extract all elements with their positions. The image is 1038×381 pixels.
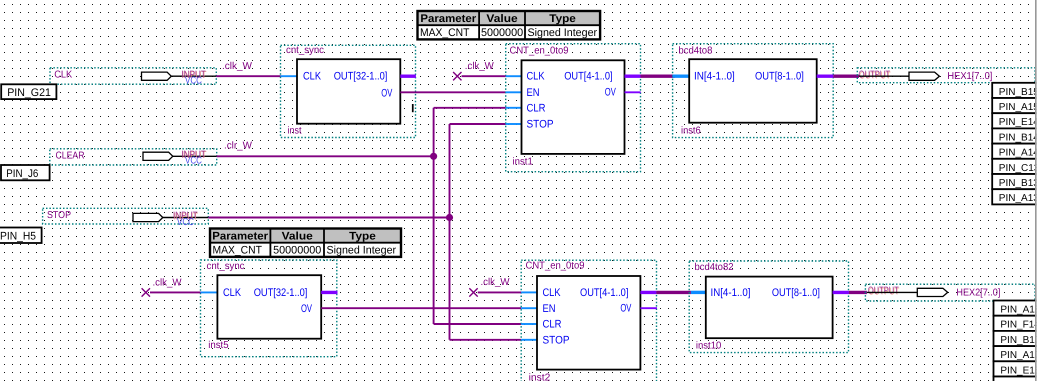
bus stub IN (inst6): [673, 74, 690, 77]
block cnt_sync inst: [297, 59, 400, 124]
svg-text:inst10: inst10: [696, 340, 722, 351]
wire clk_W to inst5 CLK: [150, 291, 201, 293]
svg-text:Type: Type: [549, 13, 576, 25]
svg-text:STOP: STOP: [47, 210, 71, 221]
block CNT_en_0to9 inst1: [522, 60, 625, 154]
output pin symbol HEX1: [909, 72, 939, 80]
output port HEX2 selection box: [865, 284, 1035, 301]
svg-text:CLEAR: CLEAR: [56, 150, 85, 161]
module CNT_en_0to9 inst1 selection box: [506, 44, 641, 172]
pin list HEX2: [994, 301, 1038, 381]
bus wire inst6 OUT to output HEX1: [833, 74, 859, 77]
svg-text:inst1: inst1: [513, 156, 534, 167]
svg-text:PIN_J6: PIN_J6: [6, 168, 38, 180]
svg-text:CLK: CLK: [303, 70, 322, 82]
module bcd4to82 inst10 selection box: [689, 261, 848, 353]
pin stub OV (inst1): [625, 91, 641, 93]
window border: [1037, 0, 1038, 381]
junction stop net: [446, 214, 453, 221]
svg-text:STOP: STOP: [543, 335, 570, 347]
svg-text:CNT_en_0to9: CNT_en_0to9: [526, 261, 585, 272]
svg-text:inst6: inst6: [681, 125, 701, 136]
bus stub OUT (inst1): [625, 74, 641, 77]
svg-text:.clk_W: .clk_W: [222, 61, 253, 72]
module bcd4to8 inst6 selection box: [673, 44, 834, 138]
svg-text:CLR: CLR: [527, 102, 546, 114]
module CNT_en_0to9 inst2 selection box: [521, 260, 656, 381]
svg-text:OV: OV: [381, 88, 392, 100]
bus wire inst2 OUT to inst10 IN: [656, 291, 691, 294]
svg-text:Signed Integer: Signed Integer: [528, 27, 598, 39]
bus wire inst10 OUT to output HEX2: [849, 291, 867, 294]
bus stub OUT (inst5): [321, 291, 337, 294]
svg-text:OUT[8-1..0]: OUT[8-1..0]: [772, 287, 820, 299]
wire clk_W to inst1 CLK: [462, 75, 506, 77]
pin stub STOP (inst2): [521, 339, 537, 341]
svg-text:CNT_en_0to9: CNT_en_0to9: [510, 45, 569, 56]
pin stub CLK (inst1): [506, 75, 522, 77]
svg-text:.clr_W: .clr_W: [224, 141, 253, 152]
svg-text:PIN_G21: PIN_G21: [7, 87, 51, 99]
wire OV to EN: [400, 91, 505, 93]
svg-text:PIN_A15: PIN_A15: [999, 102, 1038, 113]
block CNT_en_0to9 inst2: [537, 276, 640, 370]
svg-text:Parameter: Parameter: [420, 13, 477, 25]
input pin symbol STOP: [133, 213, 163, 221]
svg-text:CLK: CLK: [543, 287, 562, 299]
svg-text:inst2: inst2: [529, 373, 551, 381]
svg-text:CLK: CLK: [527, 71, 546, 83]
svg-text:PIN_B17: PIN_B17: [1000, 335, 1038, 346]
svg-text:.clk_W: .clk_W: [153, 278, 183, 289]
pin stub CLK (inst2): [521, 291, 537, 293]
svg-text:cnt_sync: cnt_sync: [286, 45, 324, 56]
svg-text:CLK: CLK: [223, 287, 242, 299]
parameter table MAX_CNT=5000000: [418, 11, 601, 25]
svg-text:OUT[4-1..0]: OUT[4-1..0]: [580, 287, 628, 299]
input port CLK selection box: [50, 68, 216, 84]
pin stub STOP (inst1): [506, 123, 522, 125]
svg-text:Type: Type: [349, 231, 376, 243]
svg-text:.clk_W: .clk_W: [465, 61, 495, 72]
bus stub OUT (inst2): [640, 291, 656, 294]
svg-text:PIN_C13: PIN_C13: [999, 163, 1038, 174]
pin stub CLR (inst2): [521, 323, 537, 325]
svg-text:PIN_A13: PIN_A13: [999, 193, 1038, 204]
svg-text:PIN_A17: PIN_A17: [1000, 350, 1038, 361]
svg-text:Value: Value: [486, 13, 517, 25]
input pin symbol CLK: [142, 72, 172, 80]
pin PIN_J6: [1, 165, 50, 180]
wire stop to inst2 STOP: [450, 339, 522, 341]
output port HEX1 selection box: [857, 68, 1035, 83]
off-page marker clk_W (inst1): [453, 72, 461, 80]
input pin symbol CLEAR: [143, 152, 173, 160]
pin line CLEAR: [173, 155, 217, 157]
pin line STOP: [163, 217, 209, 219]
svg-text:OUT[32-1..0]: OUT[32-1..0]: [254, 287, 308, 299]
input port CLEAR selection box: [50, 149, 217, 165]
pin stub EN (inst2): [521, 307, 537, 309]
svg-text:EN: EN: [527, 87, 540, 99]
svg-text:IN[4-1..0]: IN[4-1..0]: [711, 287, 751, 299]
svg-text:inst: inst: [288, 126, 302, 137]
pin line HEX2: [867, 291, 917, 293]
wire clr to inst2 CLR: [434, 323, 522, 325]
pin PIN_H5: [0, 228, 42, 244]
wire clk_W to inst2 CLK: [478, 291, 522, 293]
svg-text:OUTPUT: OUTPUT: [868, 286, 899, 297]
svg-text:bcd4to82: bcd4to82: [695, 262, 734, 273]
svg-text:Value: Value: [282, 231, 313, 243]
svg-text:OUTPUT: OUTPUT: [859, 70, 891, 81]
wire stop to inst1 STOP: [450, 123, 506, 125]
svg-text:OV: OV: [605, 86, 616, 98]
off-page marker clk_W (inst2): [469, 288, 477, 296]
bus stub OUT (inst): [400, 74, 416, 77]
svg-text:PIN_B14: PIN_B14: [999, 132, 1038, 143]
svg-text:PIN_A14: PIN_A14: [999, 148, 1038, 159]
wire clr to inst1 CLR: [434, 107, 506, 109]
bus wire inst1 OUT to inst6 IN: [641, 74, 675, 77]
svg-text:Signed Integer: Signed Integer: [327, 245, 397, 257]
svg-text:PIN_B13: PIN_B13: [999, 178, 1038, 189]
module cnt_sync inst selection box: [281, 45, 416, 137]
pin stub CLK (inst): [281, 75, 298, 77]
svg-text:PIN_E15: PIN_E15: [1000, 365, 1038, 376]
svg-text:PIN_A18: PIN_A18: [1000, 305, 1038, 316]
svg-text:CLK: CLK: [54, 69, 72, 80]
svg-text:CLR: CLR: [543, 319, 562, 331]
block bcd4to8 inst6: [689, 59, 817, 122]
svg-text:inst5: inst5: [208, 340, 229, 351]
pin stub OV (inst2): [640, 307, 657, 309]
bus stub OUT (inst6): [817, 74, 834, 77]
svg-text:EN: EN: [543, 303, 556, 315]
svg-text:OV: OV: [620, 303, 631, 315]
module cnt_sync inst5 selection box: [201, 260, 337, 357]
pin PIN_G21: [1, 84, 56, 99]
svg-text:OUT[8-1..0]: OUT[8-1..0]: [755, 71, 804, 83]
svg-text:.clk_W: .clk_W: [481, 277, 511, 288]
parameter table MAX_CNT=50000000: [210, 229, 401, 243]
pin stub CLK (inst5): [201, 291, 218, 293]
block cnt_sync inst5: [217, 275, 321, 339]
block bcd4to82 inst10: [706, 277, 833, 339]
svg-text:PIN_E14: PIN_E14: [999, 117, 1038, 128]
svg-text:Parameter: Parameter: [212, 231, 269, 243]
wire clk_W: [216, 75, 280, 77]
off-page marker clk_W (inst5): [142, 288, 150, 296]
pin line CLK: [171, 75, 216, 77]
bus stub IN (inst10): [691, 291, 706, 294]
pin stub CLR (inst1): [506, 107, 522, 109]
bus stub OUT (inst10): [833, 291, 849, 294]
pin line HEX1: [859, 75, 909, 77]
junction clr net: [430, 153, 437, 160]
svg-text:HEX1[7..0]: HEX1[7..0]: [947, 71, 992, 82]
input port STOP selection box: [43, 208, 209, 224]
svg-text:STOP: STOP: [527, 119, 554, 131]
svg-text:MAX_CNT: MAX_CNT: [213, 245, 263, 257]
cursor mark: [412, 104, 414, 112]
output pin symbol HEX2: [917, 288, 947, 296]
svg-text:OV: OV: [301, 303, 312, 315]
svg-text:cnt_sync: cnt_sync: [207, 261, 245, 272]
svg-text:MAX_CNT: MAX_CNT: [420, 27, 470, 39]
wire clr_W: [217, 155, 434, 157]
svg-text:HEX2[7..0]: HEX2[7..0]: [956, 287, 1000, 298]
wire stop net vertical: [449, 124, 451, 340]
wire clr net vertical: [433, 108, 435, 324]
pin stub EN (inst1): [506, 91, 522, 93]
pin list HEX1: [992, 83, 1038, 205]
svg-text:PIN_B15: PIN_B15: [999, 87, 1038, 98]
svg-text:IN[4-1..0]: IN[4-1..0]: [694, 71, 735, 83]
svg-text:PIN_H5: PIN_H5: [0, 231, 36, 243]
svg-text:PIN_F14: PIN_F14: [1000, 320, 1038, 331]
svg-text:OUT[4-1..0]: OUT[4-1..0]: [564, 71, 612, 83]
svg-text:VCC: VCC: [185, 156, 202, 167]
svg-text:VCC: VCC: [185, 76, 202, 87]
svg-text:50000000: 50000000: [273, 245, 321, 257]
svg-text:VCC: VCC: [177, 217, 194, 228]
svg-text:5000000: 5000000: [481, 27, 523, 39]
wire STOP: [208, 217, 449, 219]
wire inst5 OV to inst2 EN: [321, 307, 521, 309]
svg-text:bcd4to8: bcd4to8: [678, 45, 712, 56]
svg-text:OUT[32-1..0]: OUT[32-1..0]: [334, 71, 388, 83]
